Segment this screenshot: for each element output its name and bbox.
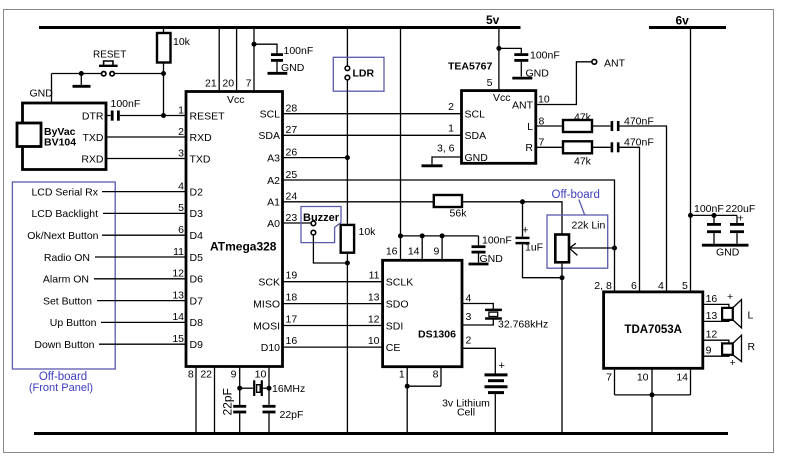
svg-text:GND: GND: [465, 152, 489, 164]
svg-text:12: 12: [706, 328, 718, 340]
svg-text:100nF: 100nF: [694, 203, 724, 215]
pin 7 wire to 5v: [246, 28, 254, 92]
node junction A3/LDR: [345, 155, 350, 160]
node junction tda gnd: [650, 392, 655, 397]
pin 12 D6 label: [172, 268, 203, 286]
wire cap to atmega pin1: [120, 115, 186, 117]
pin 8 wire (ds1306 gnd): [433, 367, 441, 387]
svg-text:2: 2: [448, 101, 454, 113]
capacitor 220uF (6v): [726, 203, 756, 244]
svg-text:D3: D3: [190, 208, 204, 220]
svg-text:22k Lin: 22k Lin: [572, 219, 606, 231]
pin 16 wire (ds1306): [386, 236, 401, 260]
node junction 1uF: [520, 199, 525, 204]
pin 16 wire speaker L+: [703, 291, 733, 308]
wire 6v to tda pin5: [690, 28, 692, 292]
power rail 6v: [649, 14, 726, 28]
pin 2 RXD label: [178, 126, 212, 144]
pin 21 wire to 5v: [205, 28, 219, 92]
svg-text:RXD: RXD: [81, 153, 104, 165]
svg-text:14: 14: [172, 311, 184, 323]
pin 14 wire (ds1306): [408, 236, 422, 260]
svg-text:D2: D2: [190, 186, 204, 198]
svg-text:TEA5767: TEA5767: [448, 60, 493, 72]
ground rail (bottom): [34, 432, 728, 435]
wire ds1306 supply bus: [401, 235, 479, 237]
pin 15 D9 label: [172, 333, 203, 351]
pin 10 wire XTAL2: [255, 367, 269, 405]
capacitor 100nF (DTR-reset): [111, 98, 141, 121]
svg-text:4: 4: [178, 180, 184, 192]
capacitor 100nF (6v): [694, 203, 724, 244]
svg-text:Ok/Next Button: Ok/Next Button: [27, 230, 98, 242]
capacitor 100nF (atmega vcc): [254, 44, 313, 72]
svg-text:GND: GND: [526, 67, 550, 79]
node junction resistor/button: [161, 71, 166, 76]
svg-text:D7: D7: [190, 295, 204, 307]
svg-text:RXD: RXD: [190, 132, 213, 144]
wire 5v to ds1306 bus: [400, 28, 402, 236]
svg-text:MISO: MISO: [253, 298, 280, 310]
pin 7 wire R out: [536, 137, 563, 149]
pin 3 wire (xtal): [462, 311, 493, 325]
svg-text:13: 13: [706, 310, 718, 322]
pin 18 MISO label: [253, 292, 297, 311]
ground symbol (reset button): [73, 74, 91, 87]
wire SCK/SCLK: [283, 270, 413, 289]
svg-text:LDR: LDR: [353, 68, 375, 80]
svg-text:17: 17: [286, 314, 298, 326]
wire ds1306 to ground rail: [406, 386, 408, 433]
pin 16 D10 label: [261, 335, 298, 354]
svg-text:11: 11: [173, 246, 184, 258]
capacitor 100nF (ds1306): [472, 235, 512, 263]
svg-text:9: 9: [433, 246, 439, 258]
node junction gnd branch: [79, 71, 84, 76]
pin 26 A3 label: [267, 146, 297, 164]
svg-text:Set Button: Set Button: [43, 295, 92, 307]
svg-text:D10: D10: [261, 342, 280, 354]
wire divider to ground: [346, 253, 348, 434]
wire 6v cap branch: [691, 214, 738, 216]
svg-text:47k: 47k: [574, 111, 592, 123]
capacitor 22pF (left): [220, 388, 246, 433]
wire buzzer to ground node: [313, 235, 347, 263]
svg-text:LCD Serial Rx: LCD Serial Rx: [31, 186, 98, 198]
node junction reset line: [161, 113, 166, 118]
svg-text:SCL: SCL: [260, 109, 281, 121]
node Down Button: [34, 339, 186, 351]
svg-text:26: 26: [286, 146, 298, 158]
wire MISO/SDO: [283, 292, 409, 311]
wire R to tda pin6: [620, 147, 640, 292]
svg-text:12: 12: [368, 314, 380, 326]
svg-text:CE: CE: [386, 342, 401, 354]
pin 6 D4 label: [178, 224, 203, 242]
wire button right to reset node: [114, 73, 163, 75]
svg-text:RESET: RESET: [93, 50, 126, 61]
svg-text:SCLK: SCLK: [386, 277, 413, 289]
node junction bus pin14: [420, 233, 425, 238]
wire pot to ground: [561, 262, 563, 433]
svg-text:20: 20: [222, 78, 234, 90]
svg-text:Down Button: Down Button: [34, 339, 94, 351]
wire D10/CE: [283, 335, 400, 354]
node junction vcc decoupling: [252, 42, 257, 47]
svg-text:A0: A0: [267, 218, 280, 230]
svg-text:TXD: TXD: [83, 132, 104, 144]
svg-text:3: 3: [466, 311, 472, 323]
svg-text:Cell: Cell: [457, 406, 475, 418]
ground symbol (tea vcc cap): [512, 67, 549, 79]
svg-text:1: 1: [448, 123, 454, 135]
svg-text:Buzzer: Buzzer: [303, 212, 340, 224]
speaker L: [722, 300, 753, 328]
crystal 16MHz: [237, 380, 305, 396]
svg-text:SDO: SDO: [386, 298, 409, 310]
svg-text:GND: GND: [30, 87, 54, 99]
svg-text:+: +: [730, 357, 736, 369]
wire L to tda pin4: [620, 126, 667, 292]
svg-text:SDA: SDA: [258, 130, 280, 142]
IC U3 DS1306: [383, 260, 462, 366]
svg-text:A1: A1: [267, 197, 280, 209]
svg-text:6: 6: [178, 224, 184, 236]
buzzer BZ1: [301, 207, 341, 243]
svg-text:Radio ON: Radio ON: [44, 252, 90, 264]
svg-text:Off-board: Off-board: [552, 189, 600, 201]
pin 23 A0 label: [267, 212, 297, 230]
svg-text:9: 9: [706, 344, 712, 356]
pin 1 wire (ds1306 gnd): [399, 367, 407, 387]
ground symbol (atmega vcc cap): [268, 62, 305, 74]
pin 5 wire vcc: [487, 28, 499, 91]
wire tda gnd join: [615, 394, 691, 396]
capacitor 470nF (R): [612, 137, 654, 153]
svg-text:5: 5: [178, 202, 184, 214]
svg-text:100nF: 100nF: [530, 49, 560, 61]
node Radio ON: [44, 252, 186, 264]
node junction buzzer return: [345, 261, 350, 266]
node junction wiper/A2: [612, 246, 617, 251]
svg-text:10: 10: [368, 335, 380, 347]
svg-text:7: 7: [606, 371, 612, 383]
pin 9 wire (ds1306): [433, 236, 442, 260]
ground symbol (tea gnd): [422, 164, 443, 167]
pin 3 TXD label: [178, 147, 211, 165]
svg-text:SCK: SCK: [258, 277, 280, 289]
pin 19 SCK label: [258, 270, 297, 289]
svg-text:5v: 5v: [486, 13, 500, 27]
svg-text:22pF: 22pF: [280, 409, 304, 421]
svg-text:SDI: SDI: [386, 320, 404, 332]
svg-text:4: 4: [658, 280, 664, 292]
svg-text:9: 9: [231, 368, 237, 380]
wire DTR to cap: [106, 115, 111, 117]
svg-text:TXD: TXD: [190, 153, 211, 165]
off-board front panel box: [12, 182, 115, 394]
svg-text:Alarm ON: Alarm ON: [43, 274, 89, 286]
svg-text:22: 22: [200, 368, 212, 380]
svg-text:3, 6: 3, 6: [437, 143, 455, 155]
svg-text:32.768kHz: 32.768kHz: [498, 319, 548, 331]
svg-text:19: 19: [286, 270, 298, 282]
wire SDA bus: [283, 123, 462, 136]
svg-text:16MHz: 16MHz: [272, 383, 305, 395]
node junction 100nF top: [712, 213, 717, 218]
node LCD Backlight: [31, 208, 186, 220]
node Set Button: [43, 295, 186, 307]
node LCD Serial Rx: [31, 186, 186, 198]
wire A3: [283, 157, 347, 159]
wire tda to ground rail: [651, 395, 653, 434]
svg-text:23: 23: [286, 212, 298, 224]
svg-text:GND: GND: [716, 246, 740, 258]
node junction 6v caps: [688, 213, 693, 218]
node junction tea vcc cap: [496, 46, 501, 51]
svg-text:16: 16: [386, 246, 398, 258]
svg-text:8: 8: [188, 368, 194, 380]
wire A0 to buzzer: [283, 222, 311, 224]
wire A1 to 56k: [283, 201, 434, 203]
resistor 56k: [434, 195, 467, 219]
svg-text:1: 1: [399, 368, 405, 380]
svg-text:4: 4: [466, 292, 472, 304]
svg-text:1: 1: [178, 104, 184, 116]
svg-text:Vcc: Vcc: [493, 92, 511, 104]
svg-text:L: L: [748, 309, 754, 321]
pin 25 A2 label: [267, 169, 297, 187]
power rail 5v: [39, 13, 521, 28]
pin 8 wire to ground: [188, 367, 196, 434]
svg-text:10: 10: [637, 371, 649, 383]
node junction bus pin9: [440, 233, 445, 238]
svg-text:A2: A2: [267, 175, 280, 187]
svg-text:16: 16: [706, 293, 718, 305]
svg-text:6: 6: [631, 280, 637, 292]
node Ok/Next Button: [27, 230, 186, 242]
pin 27 SDA label: [258, 124, 297, 142]
svg-text:27: 27: [286, 124, 298, 136]
IC U1 ATmega328: [186, 92, 283, 367]
svg-text:+: +: [727, 291, 733, 303]
off-board volume label: [552, 189, 600, 215]
svg-text:8: 8: [539, 115, 545, 127]
svg-text:D9: D9: [190, 339, 204, 351]
svg-text:5: 5: [682, 280, 688, 292]
capacitor 470nF (L): [612, 115, 654, 131]
svg-text:2: 2: [466, 335, 472, 347]
node Up Button: [50, 317, 186, 329]
svg-text:25: 25: [286, 169, 298, 181]
pin 4 wire (xtal): [462, 292, 493, 309]
svg-text:16: 16: [286, 335, 298, 347]
battery 3v lithium cell: [442, 360, 507, 434]
svg-text:R: R: [748, 341, 756, 353]
resistor 10k (ldr divider): [341, 225, 376, 253]
pin 13 wire speaker L-: [703, 310, 729, 322]
wire reset net vertical: [163, 63, 165, 116]
wire ds1306 gnd join: [407, 385, 441, 387]
pin 4 D2 label: [178, 180, 203, 198]
pin 5 D3 label: [178, 202, 203, 220]
pin 12 wire speaker R+: [703, 328, 729, 343]
pin 20 wire to 5v: [222, 28, 236, 92]
svg-text:10: 10: [538, 93, 550, 105]
capacitor 1uF: [516, 202, 563, 278]
pin 3,6 wire tea gnd: [432, 143, 462, 165]
pin 10 wire ANT: [536, 62, 592, 106]
wire LDR to A3 node: [346, 80, 348, 225]
svg-text:L: L: [527, 121, 533, 133]
node Alarm ON: [43, 274, 186, 286]
svg-text:10: 10: [255, 368, 267, 380]
svg-text:Up Button: Up Button: [50, 317, 97, 329]
svg-text:D8: D8: [190, 317, 204, 329]
resistor 47k (R): [563, 141, 592, 167]
svg-text:7: 7: [246, 78, 252, 90]
svg-text:MOSI: MOSI: [253, 320, 280, 332]
svg-text:18: 18: [286, 292, 298, 304]
svg-text:6v: 6v: [676, 14, 690, 28]
IC U4 TDA7053A: [604, 292, 703, 368]
svg-text:5: 5: [487, 77, 493, 89]
pin 10 wire tda gnd: [637, 368, 652, 395]
crystal 32.768kHz: [485, 310, 548, 331]
photoresistor LDR: [333, 28, 384, 92]
svg-text:100nF: 100nF: [482, 235, 512, 247]
svg-text:A3: A3: [267, 152, 280, 164]
wire A2 to volume node: [283, 180, 615, 292]
svg-text:D6: D6: [190, 274, 204, 286]
potentiometer 22k Lin: [547, 215, 608, 268]
wire button left to gnd corner: [52, 73, 102, 75]
svg-text:28: 28: [286, 103, 298, 115]
wire R resistor to cap: [592, 146, 611, 148]
svg-text:GND: GND: [281, 62, 305, 74]
svg-text:R: R: [525, 142, 533, 154]
module ByVac BV104: [17, 103, 106, 170]
capacitor 100nF (tea vcc): [499, 48, 560, 76]
svg-text:Vcc: Vcc: [227, 94, 245, 106]
pin 24 A1 label: [267, 191, 297, 209]
svg-text:2: 2: [178, 126, 184, 138]
wire byvac gnd up: [51, 74, 53, 104]
wire 56k to pot: [462, 202, 562, 235]
svg-text:DTR: DTR: [82, 110, 104, 122]
svg-text:SCL: SCL: [465, 109, 486, 121]
wire byvac RXD to atmega TXD: [106, 158, 186, 160]
svg-text:LCD Backlight: LCD Backlight: [31, 208, 98, 220]
svg-text:47k: 47k: [574, 155, 592, 167]
ground symbol (6v caps): [702, 245, 749, 258]
pin 2 wire (battery): [462, 335, 495, 374]
pin 28 SCL label: [260, 103, 298, 121]
svg-text:56k: 56k: [450, 207, 468, 219]
svg-text:14: 14: [676, 371, 688, 383]
pin 8 wire L out: [536, 115, 563, 127]
wire L resistor to cap: [592, 125, 611, 127]
svg-text:13: 13: [368, 292, 380, 304]
pin 14 wire tda gnd: [676, 368, 690, 395]
svg-text:10k: 10k: [359, 226, 377, 238]
svg-text:2, 8: 2, 8: [594, 280, 612, 292]
svg-text:100nF: 100nF: [111, 98, 141, 110]
svg-text:TDA7053A: TDA7053A: [624, 324, 682, 336]
pin 13 D7 label: [172, 289, 203, 307]
svg-text:+: +: [499, 360, 505, 372]
svg-text:100nF: 100nF: [284, 45, 314, 57]
wire byvac TXD to atmega RXD: [106, 136, 186, 138]
resistor 10k (reset pull-up): [157, 28, 191, 63]
svg-text:7: 7: [539, 137, 545, 149]
svg-text:BV104: BV104: [44, 137, 76, 149]
node junction ds1306 gnd: [405, 384, 410, 389]
svg-text:ANT: ANT: [604, 57, 626, 69]
pin 11 D5 label: [173, 246, 203, 264]
antenna terminal ANT: [592, 57, 626, 69]
IC U2 TEA5767: [448, 60, 536, 164]
svg-text:1uF: 1uF: [525, 242, 543, 254]
svg-text:21: 21: [205, 78, 217, 90]
speaker R: [722, 335, 755, 369]
svg-text:GND: GND: [480, 253, 504, 265]
svg-text:22pF: 22pF: [220, 388, 234, 415]
svg-text:10k: 10k: [173, 36, 191, 48]
svg-text:(Front Panel): (Front Panel): [29, 382, 93, 394]
svg-text:SDA: SDA: [465, 130, 487, 142]
pin 17 MOSI label: [253, 314, 297, 333]
ground symbol (ds1306 cap): [469, 253, 504, 265]
pin 1 RESET label: [178, 104, 225, 122]
svg-text:14: 14: [408, 246, 420, 258]
svg-text:ANT: ANT: [512, 99, 534, 111]
node junction bus pin16: [398, 233, 403, 238]
pin 9 wire XTAL1: [231, 367, 240, 405]
svg-text:+: +: [522, 225, 528, 237]
svg-text:3: 3: [178, 147, 184, 159]
svg-text:+: +: [738, 213, 744, 225]
svg-text:D5: D5: [190, 252, 204, 264]
wire MOSI/SDI: [283, 314, 403, 333]
pin 22 wire to ground: [200, 367, 214, 434]
pushbutton RESET: [93, 50, 126, 76]
svg-text:11: 11: [369, 270, 380, 282]
wire SCL bus: [283, 101, 462, 114]
pin 9 wire speaker R-: [703, 344, 729, 356]
resistor 47k (L): [563, 111, 592, 132]
svg-text:15: 15: [172, 333, 184, 345]
svg-text:13: 13: [172, 289, 184, 301]
pin 14 D8 label: [172, 311, 203, 329]
svg-text:8: 8: [433, 368, 439, 380]
svg-text:24: 24: [286, 191, 298, 203]
svg-text:12: 12: [172, 268, 184, 280]
pin 7 wire tda gnd: [606, 368, 614, 395]
capacitor 22pF (right): [263, 406, 304, 433]
svg-text:ATmega328: ATmega328: [210, 239, 277, 253]
svg-text:RESET: RESET: [190, 110, 226, 122]
node junction pot bottom: [560, 275, 565, 280]
pot wiper arrow: [569, 243, 614, 255]
svg-text:D4: D4: [190, 230, 204, 242]
svg-text:DS1306: DS1306: [418, 328, 456, 340]
